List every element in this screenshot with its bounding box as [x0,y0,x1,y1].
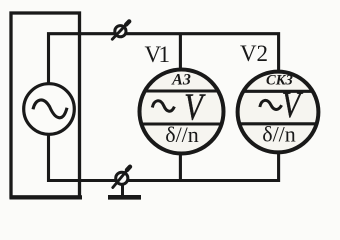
terminal X2 (bottom) [113,167,130,195]
sine symbol in PV1 [152,101,174,111]
sine symbol in PV2 [260,100,282,109]
voltmeter PV1 (V1) [140,70,224,154]
wire V1 top [179,34,182,71]
AC source G1 [24,84,75,135]
voltmeter PV2 (V2) [238,72,319,153]
chassis bar under X2 [108,195,141,200]
svg-text:V1: V1 [144,42,169,67]
svg-text:V: V [281,86,303,126]
svg-text:V2: V2 [240,41,268,66]
generator box [11,13,80,197]
wire bottom from source to rail corner [49,135,279,180]
wire V1 bottom [179,153,182,181]
svg-text:δ//n: δ//n [262,122,296,147]
svg-text:δ//n: δ//n [165,122,199,147]
wire top from source to rail corner [49,34,279,83]
terminal X1 (top) [112,21,129,39]
